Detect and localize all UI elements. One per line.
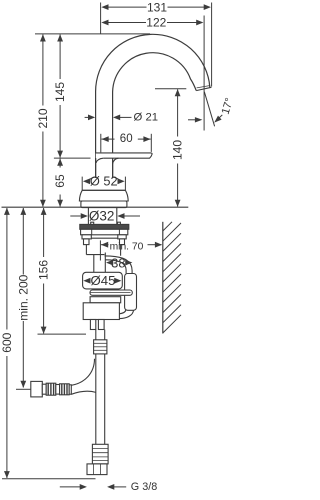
dim 600 line (6, 208, 8, 330)
fitting ribbed section 2 (60, 384, 70, 395)
dim 38 left arrow (106, 260, 113, 266)
lever top and tip outline (96, 153, 152, 158)
valve upper box fill (86, 238, 120, 256)
spout outlet inner face line (197, 86, 211, 88)
valve upper box outline (86, 238, 120, 256)
dim 60 left arrow (102, 136, 109, 142)
svg-text:65: 65 (53, 174, 67, 188)
lever bottom left fillet (96, 158, 103, 163)
extension line right for 122 upper part (203, 16, 205, 61)
hose bottom bend inner (118, 310, 126, 314)
nut body facet lines (91, 229, 93, 235)
dim min70 line right (148, 244, 162, 246)
dim Ø21 left arrow stem (85, 116, 90, 118)
body flare left (88, 177, 96, 181)
min70 extension line (99, 240, 101, 260)
dim 122 line (104, 22, 146, 24)
dim min70 line left (101, 244, 109, 246)
fitting ring (56, 385, 60, 395)
dim 65 top arrow (57, 159, 63, 166)
dim min200 top arrow (20, 208, 26, 215)
spout tube fill (96, 34, 212, 178)
svg-text:156: 156 (37, 260, 51, 280)
dim G3/8 left arrow (80, 484, 87, 490)
nut body (81, 229, 128, 235)
dim 60 line (101, 138, 114, 140)
dim 60 left extension line (100, 134, 102, 153)
dim 145 top arrow (57, 34, 63, 41)
dim Ø52 right extension line (124, 177, 126, 190)
nut left foot flange (82, 235, 91, 239)
dim 60 right arrow (143, 136, 150, 142)
dim 156 bottom arrow (41, 327, 47, 334)
svg-text:min. 70: min. 70 (110, 242, 144, 253)
down hose left wall (95, 330, 97, 445)
shank left wall (87, 208, 89, 225)
dim 210 top arrow (40, 34, 46, 41)
dim 131 left arrow (101, 4, 108, 10)
svg-text:Ø45: Ø45 (91, 273, 116, 288)
dim min200 line (22, 208, 24, 275)
spout inner wall (113, 53, 197, 178)
escutcheon base rim (81, 201, 127, 208)
dim 65 bottom arrow (57, 200, 63, 207)
angle arrow left (188, 119, 196, 121)
spout outlet face (196, 87, 211, 90)
svg-text:122: 122 (146, 16, 166, 30)
lower neck left wall (93, 255, 95, 273)
dim 600 top arrow (4, 208, 10, 215)
svg-text:600: 600 (0, 332, 14, 352)
hose nipple left (90, 320, 95, 330)
dim 210 bottom arrow (40, 200, 46, 207)
svg-text:Ø 52: Ø 52 (90, 174, 118, 189)
dim Ø45 left arrow (83, 278, 90, 284)
elbow hose inner (105, 260, 126, 274)
svg-text:145: 145 (53, 82, 67, 102)
dim 140 bottom arrow (175, 200, 181, 207)
spout top extension line (35, 33, 150, 35)
dim 600 bottom arrow (4, 471, 10, 478)
svg-text:131: 131 (147, 0, 167, 14)
dim 38 right arrow (125, 260, 132, 266)
angle arrow right (218, 115, 223, 119)
stream slant line (204, 92, 214, 127)
nut top bar (80, 224, 129, 229)
hose bottom bend outer (120, 310, 134, 319)
wall hatching (163, 222, 172, 231)
fitting collar (69, 385, 71, 394)
dim Ø32 left leader (70, 215, 80, 217)
dim Ø21 right arrow (113, 115, 120, 121)
nut right foot leg (120, 239, 125, 245)
fitting neck (42, 384, 46, 394)
svg-text:Ø32: Ø32 (89, 209, 115, 224)
lower neck right wall (104, 253, 106, 273)
fitting ribbed section 1 (46, 383, 56, 395)
valve block Ø45 (83, 272, 123, 289)
dim G3/8 right line (114, 486, 126, 488)
bottom crimp sleeve (92, 444, 108, 464)
svg-text:min. 200: min. 200 (16, 274, 30, 320)
dim Ø32 right leader (124, 215, 140, 217)
dim 156 top arrow (41, 208, 47, 215)
dim Ø52 left arrow (83, 178, 90, 184)
mounting deck line (2, 206, 189, 208)
dim 156 extension tick (38, 333, 87, 335)
lever bottom right fillet into neck (113, 158, 119, 164)
dim 60 right extension line (150, 134, 152, 152)
svg-text:210: 210 (36, 108, 50, 128)
svg-text:38: 38 (111, 256, 125, 271)
dim Ø32 left arrow (81, 213, 88, 219)
nut right foot flange (118, 235, 126, 239)
body flare right (113, 177, 121, 181)
dim 600 extension line (2, 478, 96, 480)
dim 210 line (42, 35, 44, 106)
svg-text:140: 140 (171, 140, 185, 160)
dim min70 right arrow (155, 242, 162, 248)
dim Ø21 leader (120, 116, 132, 118)
escutcheon dome (79, 190, 128, 201)
nut top tabs (91, 222, 94, 224)
dim G3/8 left line (60, 486, 81, 488)
dim min200 extension tick (16, 388, 31, 390)
down hose right wall (104, 330, 106, 445)
elbow hose outer (105, 256, 133, 274)
dim 145 bottom arrow (57, 151, 63, 158)
left hose upper wall (71, 359, 94, 386)
valve tab plate (90, 290, 132, 295)
svg-text:Ø 21: Ø 21 (134, 111, 159, 123)
dim Ø52 left extension line (81, 177, 83, 190)
spout outer wall (96, 34, 210, 178)
hose nipple right (98, 320, 104, 330)
G3/8 hex nut (87, 464, 107, 475)
dim 156 line (43, 208, 45, 257)
neck left wall (95, 158, 97, 177)
extension line left (tap axis) for 131/122 (100, 3, 102, 35)
dim 65 line (59, 159, 61, 168)
svg-text:60: 60 (120, 133, 133, 145)
dim 122 right arrow (196, 20, 203, 26)
dim 131 line (104, 6, 146, 8)
left hose lower wall (71, 391, 96, 394)
dim Ø32 right arrow (117, 213, 124, 219)
dim min200 bottom arrow (20, 381, 26, 388)
dim G3/8 right arrow (107, 484, 114, 490)
dim Ø21 left arrow (88, 115, 95, 121)
valve lower upper box (90, 297, 121, 303)
upper crimp sleeve (94, 340, 107, 354)
dim 145 line (59, 35, 61, 80)
lever fill (96, 153, 152, 158)
dim 131 right arrow (204, 4, 211, 10)
escutcheon dome top seam (82, 189, 125, 191)
lever-top extension line (54, 157, 91, 159)
neck right wall (112, 164, 114, 178)
dim 140 top arrow (175, 89, 181, 96)
hose sleeve (125, 274, 137, 311)
outlet extension line (155, 88, 186, 90)
shank right wall (116, 208, 118, 225)
stream reference vertical line (203, 60, 205, 131)
dim Ø45 right arrow (114, 278, 121, 284)
dim min70 left arrow (101, 242, 108, 248)
extension line right for 131 (211, 3, 213, 87)
valve lower body (83, 303, 119, 320)
dim Ø52 right arrow (118, 178, 125, 184)
wall line (162, 222, 164, 334)
fitting square nut (31, 381, 43, 397)
dim 122 left arrow (101, 20, 108, 26)
svg-text:G 3/8: G 3/8 (131, 481, 157, 493)
nut left foot leg (84, 239, 90, 245)
dim 140 line (177, 89, 179, 136)
valve upper box bottom edge (86, 254, 104, 256)
